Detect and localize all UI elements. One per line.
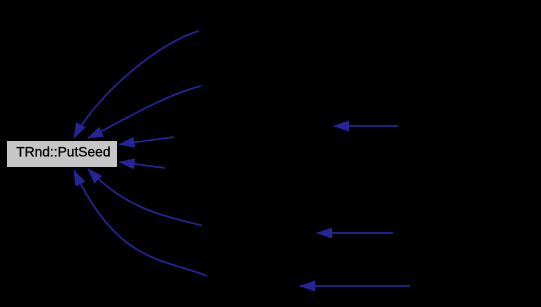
- wire edge A2 (caller row2 to PutSeed): [88, 86, 201, 138]
- wire edge D (caller row5 to PutSeed, lower curve): [88, 169, 202, 226]
- wire edge E0 (indirect caller to row3, horizontal): [334, 125, 398, 127]
- wire edge E1 (indirect caller to row5, horizontal): [317, 232, 393, 234]
- wire edge A1 (caller row1 to PutSeed, long top curve): [74, 31, 199, 138]
- wire edge A4 (caller row4 to PutSeed, short arrow): [120, 162, 166, 168]
- wire edge C (caller row6 to PutSeed, bottom long curve): [74, 171, 207, 277]
- node TRnd::PutSeed (central function box): [7, 141, 118, 168]
- wire edge E2 (indirect caller to row6, horizontal): [300, 285, 410, 287]
- svg-text:TRnd::PutSeed: TRnd::PutSeed: [16, 144, 110, 159]
- wire edge A3 (caller row3 to PutSeed, short arrow): [120, 137, 175, 144]
